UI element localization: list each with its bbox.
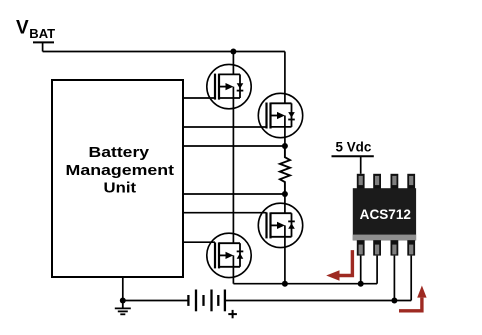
node A junction dot (282, 143, 288, 149)
wire Q2 drain drop from rail (284, 52, 286, 104)
node junction dot ground (120, 298, 126, 304)
pin 4 (407, 174, 415, 189)
svg-text:Unit: Unit (104, 179, 137, 196)
transistor Q2 (high-side right MOSFET) (258, 93, 302, 137)
op-amp U1 ACS712 current sensor (SOIC-8) (353, 174, 416, 256)
wire battery positive rail (226, 300, 411, 302)
ground (115, 301, 131, 315)
node junction dot Q3 source (282, 281, 288, 287)
wire pin5 drop (360, 256, 362, 284)
svg-text:BAT: BAT (29, 26, 55, 41)
wire BMU to sense node A (183, 145, 285, 147)
wire Q3 drain from node B (284, 194, 286, 213)
wire BMU ground drop (122, 277, 124, 301)
svg-text:5 Vdc: 5 Vdc (336, 138, 372, 154)
transistor Q4 (low-side left MOSFET) (207, 233, 251, 277)
block Battery Management Unit (52, 80, 183, 277)
chip body (353, 188, 416, 240)
node junction dot pin5 (358, 281, 364, 287)
transistor Q3 (low-side right MOSFET) (258, 203, 302, 247)
battery BT1 (188, 290, 225, 312)
wire Q4 gate from BMU (183, 241, 215, 243)
wire VBAT underline (33, 41, 54, 43)
wire phase node Q1 source to Q4 drain (232, 87, 234, 244)
node VBAT label (16, 18, 55, 41)
pin 8 (407, 240, 415, 255)
current direction arrow (left, red) (326, 250, 352, 281)
wire 5 Vdc drop to pin1 (360, 156, 362, 174)
current direction arrow (up, red) (399, 286, 427, 311)
resistor R1 (sense divider) (280, 146, 290, 194)
svg-text:Management: Management (66, 162, 175, 179)
wire BMU to sense node B (183, 193, 285, 195)
wire Q2 gate from BMU (183, 126, 267, 128)
svg-text:V: V (16, 18, 29, 39)
battery plus label (228, 310, 237, 318)
node junction dot top rail (230, 49, 236, 55)
pin 5 (357, 240, 365, 255)
wire ground to battery negative (123, 300, 189, 302)
pin 3 (391, 174, 399, 189)
wire VBAT drop (42, 42, 44, 51)
wire pin7 drop (393, 256, 395, 301)
pin 2 (373, 174, 381, 189)
wire Q3 gate from BMU (183, 212, 267, 214)
node B junction dot (282, 191, 288, 197)
wire Q1 gate from BMU (183, 97, 215, 99)
svg-text:Battery: Battery (89, 144, 150, 161)
wire Q2 source to node A (284, 116, 286, 147)
wire bottom rail to ACS712 IP+ (233, 283, 377, 285)
wire Q4 source drop (232, 255, 234, 283)
wire Q1 drain from rail (232, 52, 234, 75)
wire Q3 source drop (284, 225, 286, 283)
svg-text:ACS712: ACS712 (360, 206, 412, 222)
pin 1 (357, 174, 365, 189)
wire pin8 drop (410, 256, 412, 301)
transistor Q1 (high-side left MOSFET) (207, 64, 251, 108)
pin 6 (373, 240, 381, 255)
wire top VBAT rail (43, 51, 285, 53)
wire pin6 drop (376, 256, 378, 284)
wire 5 Vdc underline (332, 155, 374, 157)
pin 7 (391, 240, 399, 255)
node junction dot pin7 (391, 298, 397, 304)
